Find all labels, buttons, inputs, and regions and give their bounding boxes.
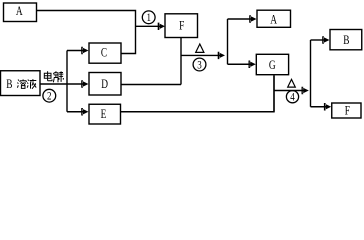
svg-text:2: 2 bbox=[47, 90, 51, 102]
svg-text:4: 4 bbox=[290, 91, 295, 103]
svg-text:F: F bbox=[345, 104, 350, 118]
svg-text:A: A bbox=[16, 5, 23, 19]
svg-text:3: 3 bbox=[197, 59, 201, 71]
svg-text:G: G bbox=[269, 58, 276, 72]
svg-text:B: B bbox=[6, 78, 12, 92]
svg-text:E: E bbox=[101, 108, 107, 122]
svg-text:D: D bbox=[101, 77, 108, 91]
svg-text:B: B bbox=[343, 34, 349, 48]
svg-text:C: C bbox=[101, 46, 107, 60]
svg-text:1: 1 bbox=[146, 12, 150, 24]
svg-text:F: F bbox=[179, 19, 184, 33]
svg-text:A: A bbox=[270, 13, 277, 27]
